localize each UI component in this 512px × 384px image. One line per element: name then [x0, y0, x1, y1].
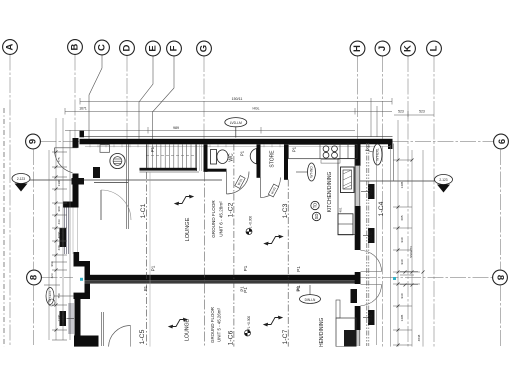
- kitchen counter right run: [338, 159, 355, 235]
- svg-text:1671: 1671: [79, 107, 87, 111]
- svp circle symbol: [110, 153, 125, 168]
- svg-text:2-123: 2-123: [439, 178, 447, 182]
- svg-text:930: 930: [400, 237, 404, 242]
- svg-text:STORE: STORE: [270, 150, 276, 168]
- svg-text:UNIT 5 - 45.26m²: UNIT 5 - 45.26m²: [217, 308, 222, 342]
- door right lower swing: [361, 285, 382, 306]
- svg-text:LOUNGE: LOUNGE: [185, 217, 191, 241]
- svg-text:1495: 1495: [400, 181, 404, 188]
- grid line D: [120, 41, 135, 140]
- top dimension line 3: [65, 126, 355, 134]
- lounge door swing: [101, 190, 131, 220]
- svg-text:LVD-LM: LVD-LM: [230, 121, 242, 125]
- wall store right: [284, 144, 288, 180]
- left dimension slashes: [55, 151, 58, 332]
- svg-text:P1: P1: [150, 146, 155, 152]
- svg-text:WT-EX1: WT-EX1: [376, 148, 380, 161]
- grid line A: [3, 40, 18, 347]
- wall WC/store: [257, 144, 261, 178]
- svg-text:1390: 1390: [57, 314, 61, 321]
- partition hall/lounge: [127, 144, 129, 229]
- compartment chain line 1-C1: [146, 172, 148, 347]
- compartment chain line 1-C3: [287, 180, 289, 348]
- svg-text:SS02/T3: SS02/T3: [409, 246, 413, 258]
- svg-text:P1: P1: [240, 150, 245, 156]
- lower unit door arc left: [109, 326, 131, 348]
- appliance below sink: [338, 214, 353, 235]
- compartment chain line 1-C2: [233, 144, 235, 348]
- window tag lower right: [351, 289, 358, 303]
- right chain double-dash line: [366, 143, 368, 346]
- svg-text:P1: P1: [296, 266, 301, 272]
- svg-text:440: 440: [57, 245, 61, 250]
- level marker upper: [246, 216, 253, 235]
- bay window left upper: [65, 208, 69, 255]
- socket symbols: [311, 201, 321, 220]
- grid line 8 left: [27, 270, 73, 285]
- svg-text:960: 960: [50, 261, 54, 266]
- svg-text:A: A: [5, 43, 16, 50]
- store door swing: [261, 178, 281, 198]
- svg-text:L: L: [429, 45, 440, 51]
- door tag black horizontal: [72, 178, 85, 185]
- svg-text:FFL +0.300: FFL +0.300: [249, 216, 253, 232]
- svg-text:1-C4: 1-C4: [378, 201, 385, 216]
- window right lower: [355, 330, 360, 346]
- hall partition line: [94, 182, 128, 184]
- svg-text:523: 523: [419, 110, 425, 114]
- lower partition lines: [102, 312, 104, 346]
- svg-text:9: 9: [28, 139, 39, 144]
- stair treads: [148, 144, 195, 168]
- svg-text:P1: P1: [151, 265, 156, 271]
- svg-text:HGL: HGL: [253, 107, 260, 111]
- svg-text:RWP-SVP: RWP-SVP: [61, 231, 65, 245]
- svg-text:775: 775: [57, 157, 61, 162]
- right dimension slashes: [397, 159, 400, 347]
- wall left jog 2: [74, 252, 80, 262]
- svg-text:423: 423: [50, 273, 54, 278]
- svg-text:930: 930: [400, 293, 404, 298]
- grid G extension: [203, 172, 205, 348]
- door tag boxed upper: [235, 176, 245, 189]
- zigzag upper left: [175, 195, 193, 205]
- svg-text:150/11: 150/11: [232, 97, 243, 101]
- svg-text:750: 750: [57, 293, 61, 298]
- oval tag WT-EX1 right: [365, 144, 382, 165]
- grid line J: [375, 41, 390, 347]
- svg-text:K: K: [403, 45, 414, 52]
- drawing cut edge: [0, 347, 512, 384]
- svg-text:P1: P1: [240, 286, 245, 292]
- svg-text:523: 523: [398, 110, 404, 114]
- svg-text:WC: WC: [229, 153, 235, 162]
- hob 4 burners: [323, 146, 337, 158]
- window tag right 3: [363, 310, 375, 325]
- window tag right 2: [363, 228, 375, 243]
- svg-text:1-C7: 1-C7: [282, 329, 289, 344]
- stair right stringer: [195, 144, 197, 171]
- entrance door leaf and swing: [54, 148, 77, 173]
- svg-text:930: 930: [400, 259, 404, 264]
- svg-text:P1: P1: [366, 145, 371, 151]
- svg-text:P1: P1: [243, 265, 248, 271]
- grid line 9 left: [26, 134, 80, 149]
- svg-text:UNIT 6 - 45.28m²: UNIT 6 - 45.28m²: [219, 201, 224, 237]
- grid 9-8 connector right: [500, 149, 502, 270]
- svg-text:2-123: 2-123: [17, 177, 25, 181]
- grid line F: [153, 41, 182, 140]
- svg-text:605: 605: [400, 215, 404, 220]
- svg-text:4848: 4848: [417, 334, 421, 341]
- grid line K: [401, 41, 416, 347]
- kitchen counter top run: [289, 145, 358, 159]
- svg-text:4060: 4060: [57, 231, 61, 238]
- small circle marker left bottom: [48, 299, 55, 306]
- page border line left: [3, 108, 5, 350]
- lounge door leaf: [100, 190, 102, 220]
- cyan marker right: [393, 277, 396, 280]
- grid line G: [197, 41, 212, 140]
- wall right exterior segments: [355, 144, 361, 166]
- bay window left lower: [69, 303, 73, 334]
- window right upper: [355, 166, 360, 206]
- lower kitchen counter: [336, 318, 356, 347]
- basin: [250, 149, 256, 164]
- svg-text:TD: TD: [313, 203, 318, 209]
- svg-text:B: B: [70, 43, 81, 50]
- top dimension line 1: [80, 97, 392, 105]
- svg-text:1495: 1495: [400, 314, 404, 321]
- svg-text:900: 900: [57, 206, 61, 211]
- right dimension numbers: [339, 181, 422, 341]
- window tag left 2: [60, 311, 75, 326]
- svg-text:DIN-LN: DIN-LN: [305, 298, 316, 302]
- svg-text:1-C3: 1-C3: [282, 203, 289, 218]
- svg-text:WT-IND: WT-IND: [310, 166, 314, 178]
- level marker lower: [245, 316, 252, 336]
- black tag SVP: [93, 167, 100, 178]
- sink unit: [341, 167, 355, 193]
- svg-text:KITCHEN/DINING: KITCHEN/DINING: [327, 171, 333, 212]
- svg-text:1-C2: 1-C2: [228, 202, 235, 217]
- svg-text:WT-EX1: WT-EX1: [48, 290, 52, 301]
- svg-text:9: 9: [496, 139, 507, 144]
- grid line C: [89, 40, 109, 140]
- left dimension chain lines: [49, 118, 70, 340]
- lower sink dark: [344, 330, 357, 347]
- svg-text:P1: P1: [292, 146, 297, 152]
- section marker left: [12, 174, 222, 192]
- stair landing edge: [140, 168, 198, 171]
- top right dimension ticks: [371, 98, 434, 137]
- svg-text:E: E: [148, 45, 159, 51]
- svg-text:AV-G1: AV-G1: [369, 313, 373, 322]
- hatch marks on top wall underside: [90, 145, 280, 148]
- zigzag lower left: [169, 318, 187, 328]
- right dimension chain lines: [377, 120, 424, 347]
- left dimension ticks: [44, 152, 67, 340]
- left dimension numbers: [50, 157, 61, 321]
- wall left jog 1: [63, 202, 79, 208]
- svg-text:H: H: [352, 45, 363, 52]
- svg-text:VI-G1: VI-G1: [369, 187, 373, 195]
- oval tag DIN-LN: [300, 285, 321, 303]
- svg-text:LOUNGE: LOUNGE: [185, 319, 191, 341]
- stair dashed walk line: [146, 155, 196, 157]
- window tag right 1: [361, 184, 375, 199]
- grid line E: [139, 41, 160, 140]
- WC left wall: [204, 144, 208, 172]
- door right upper swing: [361, 251, 382, 272]
- toilet WC: [211, 150, 229, 165]
- grid line L: [427, 41, 442, 347]
- stair left rail: [146, 144, 148, 168]
- right dimension ticks: [393, 160, 420, 345]
- svg-text:8: 8: [29, 275, 40, 280]
- svg-text:1390: 1390: [57, 179, 61, 186]
- oval tag WT-IND: [296, 163, 316, 181]
- svg-text:C: C: [97, 44, 108, 51]
- svg-text:G: G: [199, 45, 210, 52]
- svg-text:989: 989: [173, 126, 179, 130]
- WC door swing: [227, 172, 250, 195]
- stair right lining: [200, 144, 202, 171]
- oval tag LVD-LM: [225, 118, 247, 138]
- grid 9-8 connector left: [33, 149, 35, 270]
- svg-text:GROUND FLOOR: GROUND FLOOR: [210, 307, 215, 343]
- window tag bay upper: [60, 228, 67, 247]
- zigzag upper right: [265, 235, 283, 245]
- svg-text:GROUND FLOOR: GROUND FLOOR: [211, 200, 216, 238]
- svg-text:443: 443: [57, 219, 61, 224]
- meter box: [100, 145, 110, 153]
- svg-text:1-C6: 1-C6: [228, 330, 235, 345]
- svg-text:1-C1: 1-C1: [140, 203, 147, 218]
- svg-text:401: 401: [339, 207, 343, 212]
- wall bottom cut: [74, 336, 99, 348]
- door tag boxed store: [268, 184, 278, 197]
- oval tag WT-EX1 left: [46, 288, 74, 305]
- svg-text:8: 8: [495, 275, 506, 280]
- wall top exterior: [80, 136, 393, 138]
- svg-text:AV-G1: AV-G1: [369, 231, 373, 240]
- grid line H: [350, 41, 365, 143]
- svg-text:FFL +0.300: FFL +0.300: [247, 316, 251, 332]
- grid line B: [68, 40, 83, 140]
- svg-text:J: J: [377, 46, 388, 51]
- svg-text:P1: P1: [296, 286, 301, 292]
- svg-text:D: D: [122, 44, 133, 51]
- wall end line right: [393, 144, 395, 182]
- svg-text:1-C5: 1-C5: [139, 329, 146, 344]
- svg-text:F: F: [169, 45, 180, 51]
- party wall: [85, 275, 361, 280]
- svg-text:SD: SD: [314, 214, 319, 220]
- wall left below party: [85, 284, 91, 294]
- grid line 9 right: [393, 134, 509, 149]
- section marker right: [357, 175, 453, 193]
- zigzag lower right: [264, 316, 282, 326]
- svg-text:P1: P1: [143, 285, 148, 291]
- grid line 8 right: [360, 270, 507, 285]
- wall left exterior upper: [73, 138, 79, 148]
- WC bottom wall: [204, 169, 227, 172]
- cyan marker left: [80, 278, 83, 281]
- top dimension line 2: [65, 107, 392, 115]
